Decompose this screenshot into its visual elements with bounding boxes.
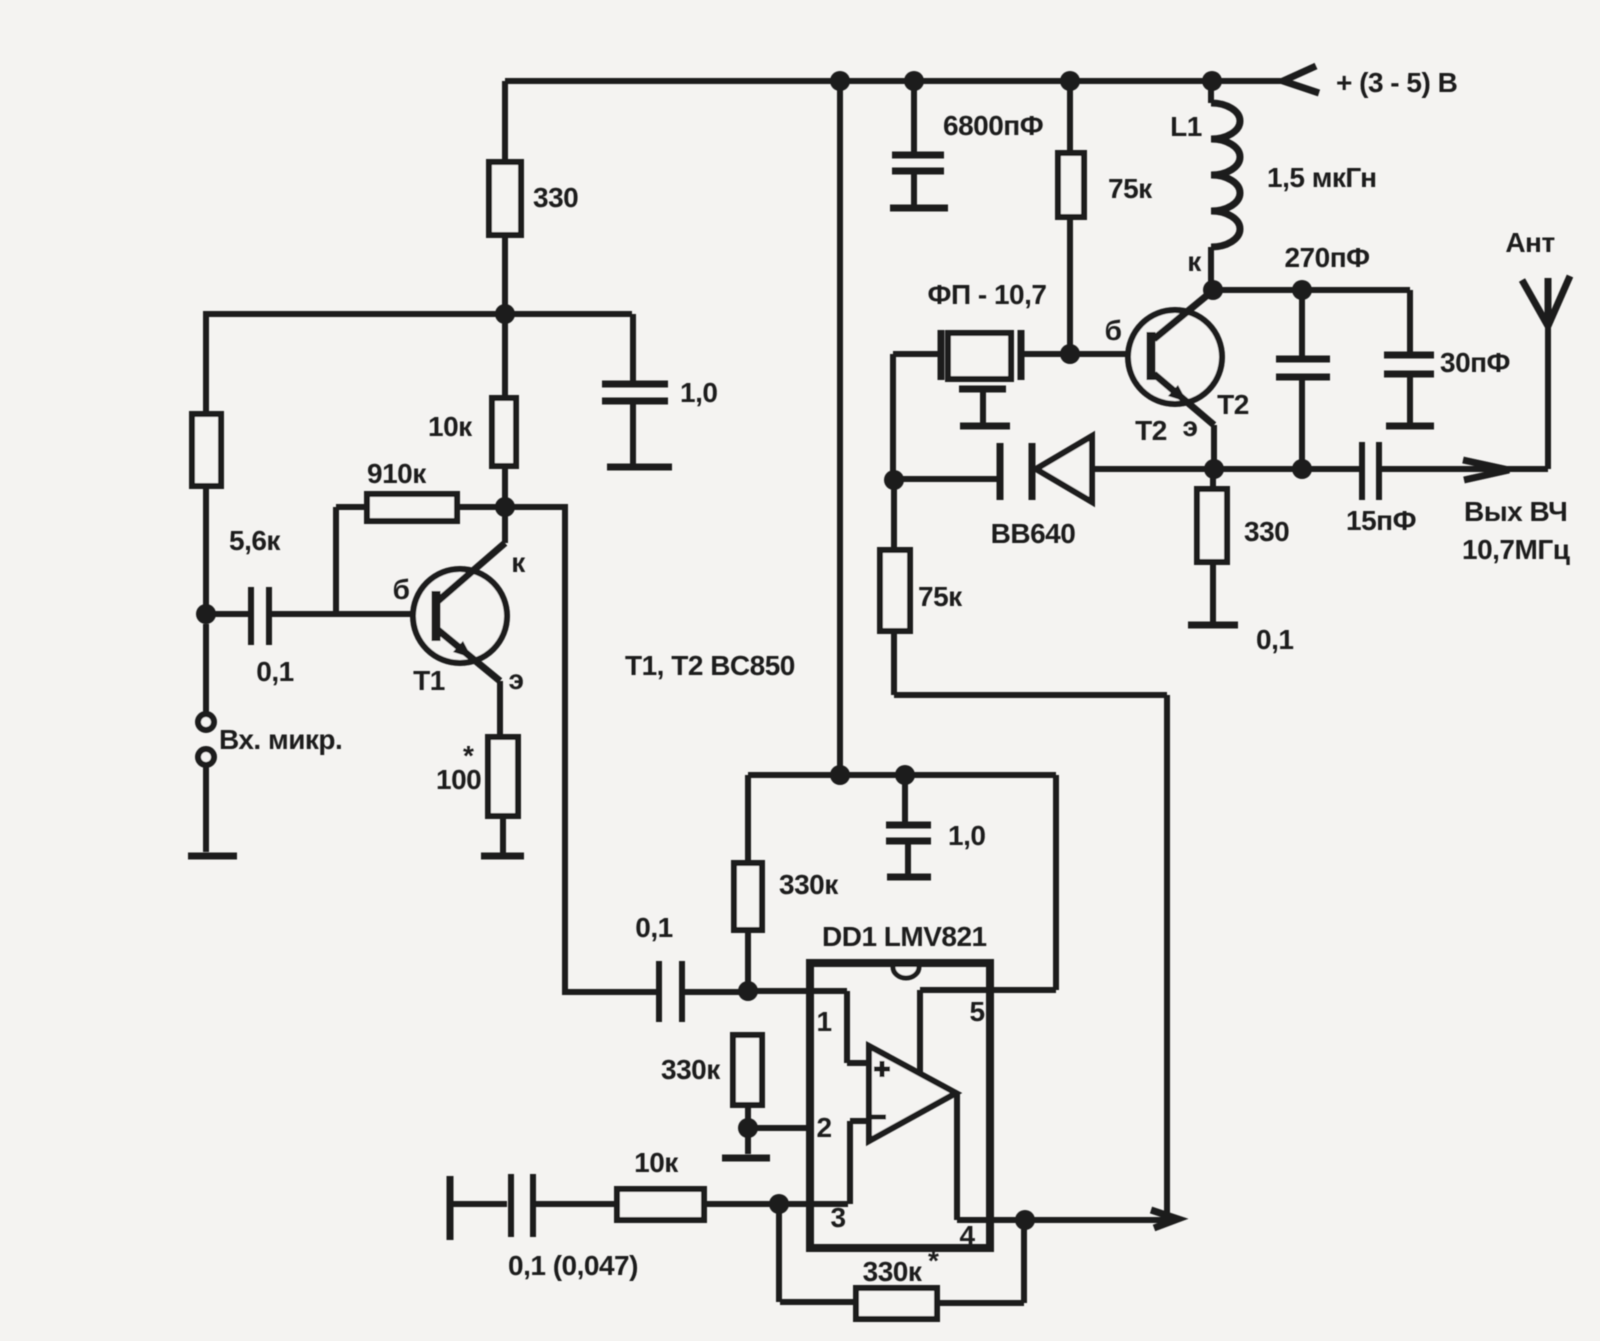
node: 6800pF tap (904, 71, 924, 91)
pin 4 output wire (957, 1093, 1167, 1251)
label k of T1 (511, 547, 526, 578)
resistor 75k (T2 base bias) (1058, 81, 1153, 354)
IC DD1 LMV821 body (810, 921, 990, 1248)
svg-text:Вых ВЧ: Вых ВЧ (1464, 496, 1567, 527)
svg-text:5: 5 (969, 996, 984, 1027)
capacitor 0,1 (0,047) input (508, 1174, 638, 1281)
svg-text:330: 330 (533, 182, 578, 213)
internal wire: inverting input (850, 1121, 866, 1204)
pin 1 wire (748, 991, 866, 1063)
svg-text:0,1 (0,047): 0,1 (0,047) (508, 1250, 638, 1281)
label Vh. mikr. (219, 724, 342, 755)
capacitor 1,0 (op-amp supply bypass) (886, 775, 985, 874)
label T2 (left) (1135, 415, 1167, 446)
svg-text:0,1: 0,1 (635, 912, 672, 943)
svg-text:*: * (928, 1245, 939, 1276)
svg-text:2: 2 (816, 1112, 831, 1143)
svg-text:T2: T2 (1135, 415, 1167, 446)
svg-text:к: к (511, 547, 526, 578)
node: supply drop junction (830, 765, 850, 785)
terminal: AF modulation input (450, 1176, 507, 1240)
svg-text:б: б (1105, 315, 1122, 346)
node: L1 tap (1202, 71, 1222, 91)
wire: filter left lead down to varicap node (890, 354, 896, 480)
resistor 10k (input series) (617, 1147, 848, 1220)
node: emitter output tap (1292, 459, 1312, 479)
pin 2 wire (748, 1112, 832, 1143)
ground (filter case) (960, 423, 1010, 430)
svg-text:270пФ: 270пФ (1284, 242, 1369, 273)
arrow at feedback junction (1151, 1210, 1178, 1228)
capacitor 30pF (tank to ground) (1384, 290, 1510, 423)
label T1 (413, 665, 445, 696)
resistor 5,6k (192, 414, 281, 556)
terminal: mic input upper (198, 624, 214, 730)
label RF out (1462, 496, 1570, 565)
svg-text:к: к (1187, 246, 1202, 277)
svg-text:T1: T1 (413, 665, 445, 696)
svg-text:э: э (1183, 411, 1198, 442)
capacitor 6800pF (supply decoupling) (892, 81, 1043, 205)
svg-text:T1, T2 BC850: T1, T2 BC850 (625, 650, 795, 681)
capacitor 1,0 (top left decoupling) (602, 314, 717, 464)
node: T2 collector (1203, 280, 1223, 300)
power input arrow + (3-5) V (1283, 66, 1457, 98)
svg-text:Ант: Ант (1505, 227, 1554, 258)
svg-text:1,0: 1,0 (948, 820, 985, 851)
svg-text:1,0: 1,0 (680, 377, 717, 408)
svg-text:910к: 910к (367, 458, 427, 489)
node: pin 2 / ground node (738, 1118, 758, 1138)
svg-text:6800пФ: 6800пФ (943, 110, 1043, 141)
resistor 910k (feedback) (336, 458, 505, 521)
ground (below pin 2 node) (722, 1128, 770, 1158)
label e of T1 (509, 664, 524, 695)
transistor T1 (BC850) (413, 507, 507, 737)
ground (below resistor 100) (481, 853, 524, 860)
node: pin 3 input node (769, 1194, 789, 1214)
svg-text:30пФ: 30пФ (1440, 347, 1510, 378)
svg-text:*: * (463, 740, 474, 771)
node: 75k / filter / T2 base junction (1060, 344, 1080, 364)
svg-text:0,1: 0,1 (1256, 624, 1293, 655)
capacitor 15pF (output coupling) (1346, 442, 1548, 536)
node: 1,0 cap tap (895, 765, 915, 785)
node: op-amp input node (pin1) (738, 981, 758, 1001)
label k of T2 (1187, 246, 1202, 277)
label T2 (right) (1217, 389, 1249, 420)
capacitor 0,1 (mic coupling) (206, 587, 433, 687)
svg-text:3: 3 (830, 1202, 845, 1233)
arrow: RF output direction (1463, 460, 1509, 480)
antenna Ant (1505, 227, 1570, 469)
node C (T1 collector node) (495, 497, 515, 517)
svg-text:75к: 75к (918, 581, 963, 612)
node: supply drop to op-amp (830, 71, 850, 775)
svg-text:L1: L1 (1170, 111, 1202, 142)
label e of T2 (1183, 411, 1198, 442)
wire: collector bus to output caps (1213, 287, 1410, 293)
node: T2 emitter (1204, 459, 1224, 479)
resistor 330k* (op-amp feedback) (779, 1204, 1024, 1319)
node: varicap / 75k feed (884, 470, 904, 490)
node: output node (1015, 1210, 1035, 1230)
resistor 330 (T2 emitter) (1197, 469, 1289, 622)
wire: horizontal bus y=314 (206, 311, 632, 317)
wire: 330 to node A (502, 235, 508, 314)
ground (below 6800pF) (890, 205, 948, 212)
piezo filter FP-10,7 (893, 279, 1147, 423)
label b of T2 (1105, 315, 1122, 346)
svg-text:1,5 мкГн: 1,5 мкГн (1267, 162, 1377, 193)
resistor 75k (varicap bias, lower) (880, 480, 1167, 1220)
node: 75k tap (1060, 71, 1080, 91)
svg-text:330к: 330к (863, 1256, 923, 1287)
wire: op-amp supply rail (748, 775, 1056, 1076)
svg-text:330: 330 (1244, 516, 1289, 547)
svg-text:ФП - 10,7: ФП - 10,7 (928, 279, 1047, 310)
wire: 910k down to base node (333, 507, 339, 614)
ground (below 30pF) (1386, 423, 1434, 430)
svg-text:10к: 10к (428, 411, 473, 442)
wire: down to resistor 5,6k (203, 314, 209, 414)
wire: +supply rail (505, 78, 1281, 84)
svg-text:0,1: 0,1 (256, 656, 293, 687)
inductor L1 1,5 uH (1170, 81, 1376, 290)
resistor 330k (upper divider) (734, 775, 839, 991)
wire: left branch from +rail down to resistor 330 (502, 81, 508, 162)
svg-text:э: э (509, 664, 524, 695)
node B (T1 base input node) (196, 604, 216, 624)
ground (below mic terminal) (188, 853, 237, 860)
node: 270pF tap on collector bus (1292, 280, 1312, 300)
label b of T1 (393, 574, 410, 605)
wire: 5,6k to node B (203, 486, 209, 614)
svg-text:+ (3 - 5) В: + (3 - 5) В (1336, 67, 1457, 98)
svg-text:330к: 330к (661, 1054, 721, 1085)
transistor T2 (BC850 oscillator) (1128, 288, 1222, 469)
svg-text:4: 4 (959, 1220, 975, 1251)
svg-text:DD1 LMV821: DD1 LMV821 (822, 921, 987, 952)
ground (below emitter 330, 0,1 bypass) (1188, 624, 1293, 655)
label pin 5 (969, 996, 984, 1027)
label pin 3 (830, 1202, 845, 1233)
svg-text:100: 100 (436, 764, 481, 795)
capacitor 270pF (tank) (1276, 242, 1370, 469)
svg-text:10к: 10к (634, 1147, 679, 1178)
node A (T1 collector supply node) (495, 304, 515, 324)
svg-text:330к: 330к (779, 869, 839, 900)
resistor 330 (collector load of T1) (489, 162, 578, 235)
ground (below 1,0 bypass) (887, 874, 931, 881)
label T1, T2 BC850 (625, 650, 795, 681)
terminal: mic input lower (198, 749, 214, 852)
svg-text:75к: 75к (1108, 173, 1153, 204)
svg-text:Вх. микр.: Вх. микр. (219, 724, 342, 755)
ground (below capacitor 1,0) (607, 464, 672, 471)
svg-text:15пФ: 15пФ (1346, 505, 1416, 536)
resistor 100 (T1 emitter) (436, 737, 518, 853)
svg-text:BB640: BB640 (991, 518, 1076, 549)
wire: T1 collector node to AF coupling cap (505, 507, 656, 992)
varicap diode BB640 with series cap (894, 436, 1359, 549)
svg-text:T2: T2 (1217, 389, 1249, 420)
resistor 330k (lower divider) (661, 1035, 762, 1128)
svg-text:5,6к: 5,6к (229, 525, 281, 556)
op-amp U1 triangle (869, 1046, 956, 1141)
resistor 10k (T1 bias) (428, 314, 516, 507)
svg-text:1: 1 (816, 1006, 831, 1037)
svg-text:10,7МГц: 10,7МГц (1462, 534, 1570, 565)
capacitor 0,1 (AF coupling to op-amp) (635, 912, 748, 1022)
svg-text:б: б (393, 574, 410, 605)
